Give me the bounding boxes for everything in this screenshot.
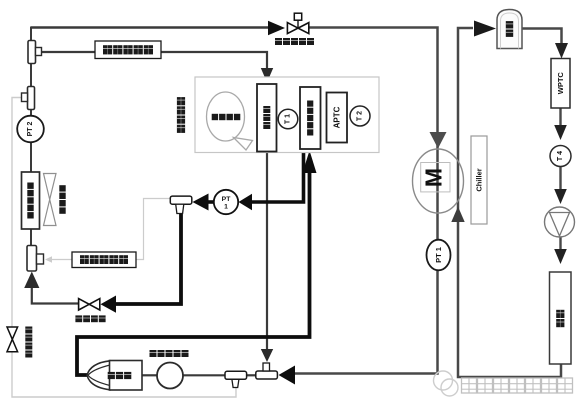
arrow left into solenoid valve 1 [101,296,117,313]
arrow up into indoor heat exchanger [303,151,317,174]
orifice fitting F2 (with left tab) [28,87,35,110]
wire: coolant riser x=457 with top feed to bottle and bottom run from battery [458,28,561,377]
solenoid valve 1 (bowtie) [79,299,90,310]
svg-text:M: M [421,168,447,187]
WPTC heater [551,59,570,109]
wire: WPTC to T4 [559,108,561,126]
gas-liquid separator [157,363,183,389]
wire: suction line segments at bottom [143,374,159,376]
wire: T4 to pump [559,166,561,191]
suction fitting F3 (stub below) [225,371,247,379]
orifice fitting F1 (top, with right tab) [28,41,36,64]
indoor heat exchanger [300,87,321,149]
arrow down into motor M [430,132,447,149]
arrow right into water bottle [474,21,496,37]
compressor [87,361,110,390]
svg-text:T 2: T 2 [357,111,364,121]
sensor PT1 (right, rotated) [427,240,451,271]
APTC heater [327,93,348,143]
outdoor fan (hourglass) [44,174,57,200]
wire: bottle to WPTC [522,29,562,45]
label: battery (vertical) [556,310,564,318]
tee orifice fitting under PT1 [170,196,192,204]
wire: compressor discharge thick line up and across to indoor HX [77,160,310,375]
wire: PT1 to tee orifice with arrow [207,200,214,204]
wire: top line from left column to electronic expansion valve [31,26,271,28]
chiller box [471,136,487,224]
svg-text:T 1: T 1 [285,114,292,124]
sensor T4 [550,146,571,167]
label box: orifice tube 1 [72,252,136,268]
svg-text:PT: PT [222,196,232,203]
sensor T1 [278,109,298,129]
svg-text:T 4: T 4 [557,151,564,161]
svg-text:1: 1 [224,204,228,211]
wire: left column vertical (top corner down through components) [30,27,32,42]
water pump (circle + triangle) [545,207,575,237]
label: gas-liquid separator [150,350,157,357]
label: solenoid valve 1 [75,315,82,322]
label: outdoor fan (vertical) [59,185,65,191]
label: solenoid valve 2 (vertical) [25,327,32,334]
arrow down into evaporator [261,68,273,83]
outdoor heat exchanger [22,172,40,229]
svg-text:WPTC: WPTC [556,72,565,95]
watermark logo circles [434,371,453,390]
label: water bottle (vertical) [506,21,513,28]
watermark text [462,378,477,393]
label: indoor fan [212,114,218,120]
svg-text:PT 2: PT 2 [27,122,34,137]
evaporator [257,84,277,152]
arrow left into PT1 [239,194,253,210]
wire: indoor HX outlet down then left to PT1 [250,149,304,202]
wire: pump to battery [559,237,561,250]
wire: evaporator outlet down to suction fitting with arrow [266,152,268,351]
svg-text:APTC: APTC [332,106,341,128]
orifice tube 1 component (with right tab) [27,246,37,272]
battery box [550,272,572,364]
sensor T2 [350,106,370,126]
svg-text:Chiller: Chiller [475,168,484,191]
sensor PT2 [17,116,44,143]
water bottle [497,10,522,49]
label: compressor [108,372,115,379]
electronic expansion valve (bowtie with actuator) [297,20,299,28]
leader line from label box to orifice tube 1 (arrow) [50,259,72,261]
wire: from EXV outlet right, down through motor, to suction arrow [295,28,438,374]
arrow up into orifice tube 1 [24,272,39,289]
A/C unit enclosure box [195,77,379,153]
motor M (ellipse with inner square) [413,149,464,213]
wire: faint bypass pipe from fitting F2 down left edge to suction tee [12,98,236,398]
wire: from solenoid1 line up into orifice tube 1 [32,287,78,304]
big black arrow into suction fitting F2 [279,366,296,385]
suction fitting F4 (stub above) [256,371,278,379]
label: electronic expansion valve [275,38,282,45]
svg-text:PT 1: PT 1 [434,247,443,263]
wire: orifice-2 feed line across to evaporator, down with arrow [42,52,268,70]
arrow up on coolant riser [451,207,464,223]
label box: orifice tube 2 [95,41,161,59]
arrow right into EXV [268,21,285,35]
wire: tee orifice stub down then left to solenoid valve 1 [115,213,181,304]
leader line from label box up to tee orifice near PT1 [136,199,170,260]
indoor blower fan scroll [207,92,245,141]
label: A/C main unit (vertical) [177,97,185,105]
sensor PT1 [214,190,238,214]
solenoid valve 2 (vertical bowtie on bypass) [7,327,18,339]
